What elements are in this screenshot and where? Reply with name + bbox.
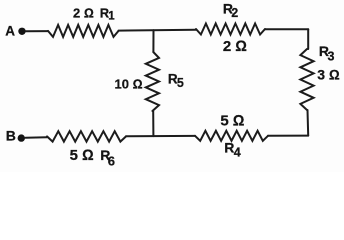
- wire R3 to bottom-right corner: [307, 110, 310, 136]
- resistor R2: [196, 24, 265, 35]
- wire top-right corner down to R3: [307, 29, 309, 49]
- svg-text:4: 4: [234, 146, 241, 160]
- terminal B dot: [18, 134, 25, 141]
- resistor R5: [146, 52, 159, 111]
- svg-text:2 Ω: 2 Ω: [223, 38, 247, 55]
- terminal A dot: [18, 28, 25, 35]
- svg-text:1: 1: [108, 11, 115, 23]
- resistor R6: [47, 131, 126, 141]
- svg-text:B: B: [6, 127, 16, 143]
- resistor R3: [300, 49, 313, 110]
- wire bottom-right corner to R4: [268, 135, 308, 137]
- junction bottom-middle: [152, 111, 154, 136]
- resistor R4: [195, 131, 268, 141]
- wire R1 to R2 (through junction): [119, 29, 197, 32]
- svg-text:6: 6: [108, 153, 115, 168]
- wire A to R1: [26, 30, 49, 32]
- svg-text:5 Ω: 5 Ω: [220, 112, 244, 129]
- svg-text:3 Ω: 3 Ω: [317, 66, 340, 82]
- junction top-middle: [152, 30, 154, 52]
- svg-text:5 Ω: 5 Ω: [70, 147, 94, 164]
- svg-text:2 Ω: 2 Ω: [73, 5, 94, 20]
- svg-text:5: 5: [177, 76, 184, 90]
- svg-text:3: 3: [328, 49, 335, 63]
- wire R2 to top-right corner: [265, 28, 308, 30]
- wire R4 to junction bottom-middle: [126, 135, 195, 137]
- svg-text:10 Ω: 10 Ω: [115, 77, 143, 92]
- svg-text:A: A: [5, 24, 15, 39]
- resistor R1: [48, 25, 119, 37]
- svg-text:2: 2: [231, 6, 238, 20]
- wire B to R6: [26, 136, 48, 139]
